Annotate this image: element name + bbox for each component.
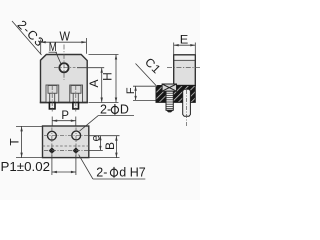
H/A bottom extension: [89, 102, 119, 104]
dimension P line: [52, 120, 76, 122]
screw tip: [166, 110, 173, 112]
svg-text:P: P: [61, 108, 69, 122]
hole D left: [48, 131, 57, 140]
label C1 with leader: [142, 55, 164, 77]
label T: [8, 138, 22, 146]
front view body: [41, 55, 88, 103]
label B: [103, 142, 117, 150]
right pin below body: [73, 103, 79, 109]
side plate: [174, 55, 196, 86]
svg-text:P1±0.02: P1±0.02: [1, 159, 51, 174]
dimension e line: [99, 136, 101, 151]
chamfer edge line on plate: [174, 59, 196, 61]
screw head: [162, 84, 176, 91]
pin center line: [186, 90, 188, 127]
dimension B line: [115, 136, 117, 158]
left pin below body: [49, 103, 55, 109]
dimension P1 line: [52, 171, 76, 173]
leader shelf for 2-phid: [93, 178, 145, 180]
vertical center line left column: [51, 128, 53, 157]
extension d-row to e: [89, 149, 103, 151]
svg-text:H: H: [101, 72, 115, 81]
phi symbol: [110, 169, 117, 176]
svg-text:W: W: [59, 30, 70, 44]
dimension E extensions: [173, 43, 175, 55]
extension D-row to B: [89, 135, 120, 137]
pin hole d right (filled diamond): [73, 147, 80, 153]
right slot: [70, 85, 83, 103]
label 2-C3 with leader to chamfer: [15, 18, 47, 50]
dimension A line: [101, 68, 103, 103]
dimension W line: [41, 41, 87, 43]
side base (cross-section hatched): [156, 86, 195, 103]
hidden edge dashed line: [43, 145, 89, 147]
mounting hole (circle): [59, 63, 68, 72]
label e: [91, 135, 103, 141]
svg-text:2-: 2-: [100, 103, 111, 117]
right pin shank in body: [72, 93, 74, 102]
screw shank with threads: [166, 91, 173, 110]
right pin head: [71, 86, 81, 94]
vertical center line right column: [75, 128, 77, 157]
H top extension: [89, 54, 119, 56]
hole vertical center line: [63, 45, 65, 81]
svg-text:E: E: [180, 33, 189, 47]
extension line from hole center to A: [77, 67, 104, 69]
body bottom edge redraw: [40, 102, 88, 104]
dimension F line: [135, 86, 137, 100]
leader shelf for 2-phiD: [98, 114, 134, 116]
hole horizontal center line: [54, 67, 76, 69]
label A: [87, 79, 101, 87]
svg-text:F: F: [125, 87, 137, 94]
dimension F extensions: [133, 85, 156, 87]
dimension P extensions: [51, 117, 53, 128]
extension bottom to B: [89, 157, 120, 159]
dimension P1 extensions: [51, 155, 53, 175]
dimension E line: [174, 44, 196, 46]
locating pin: [183, 89, 191, 116]
svg-text:D: D: [120, 103, 129, 117]
label F: [125, 87, 137, 94]
svg-text:B: B: [103, 142, 117, 150]
leader to hole d: [79, 155, 93, 179]
svg-text:M: M: [49, 40, 57, 54]
svg-text:T: T: [8, 138, 22, 146]
svg-text:e: e: [91, 135, 103, 141]
left pin head: [48, 86, 57, 94]
svg-text:d H7: d H7: [119, 165, 145, 179]
left pin center line: [51, 86, 53, 112]
label H: [101, 72, 115, 81]
left pin shank in body: [49, 93, 51, 102]
chamfer face lighter: [174, 56, 194, 60]
hole D right: [72, 131, 81, 140]
leader to hole D: [80, 115, 99, 131]
horizontal center line holes D row: [44, 135, 88, 137]
phi symbol: [111, 106, 118, 113]
side hole center line: [167, 66, 200, 68]
horizontal center line holes d row: [44, 150, 88, 152]
bottom view plate: [43, 126, 89, 158]
dimension W extension right: [85, 38, 87, 54]
left slot: [46, 85, 59, 103]
dimension T line: [21, 126, 23, 157]
dimension W extension left: [40, 40, 42, 54]
pin hole d left (filled diamond): [49, 147, 56, 153]
svg-text:A: A: [87, 79, 101, 87]
dimension T extensions: [16, 125, 42, 127]
right pin center line: [75, 86, 77, 112]
dimension H line: [115, 55, 117, 103]
svg-text:2-: 2-: [96, 165, 107, 179]
